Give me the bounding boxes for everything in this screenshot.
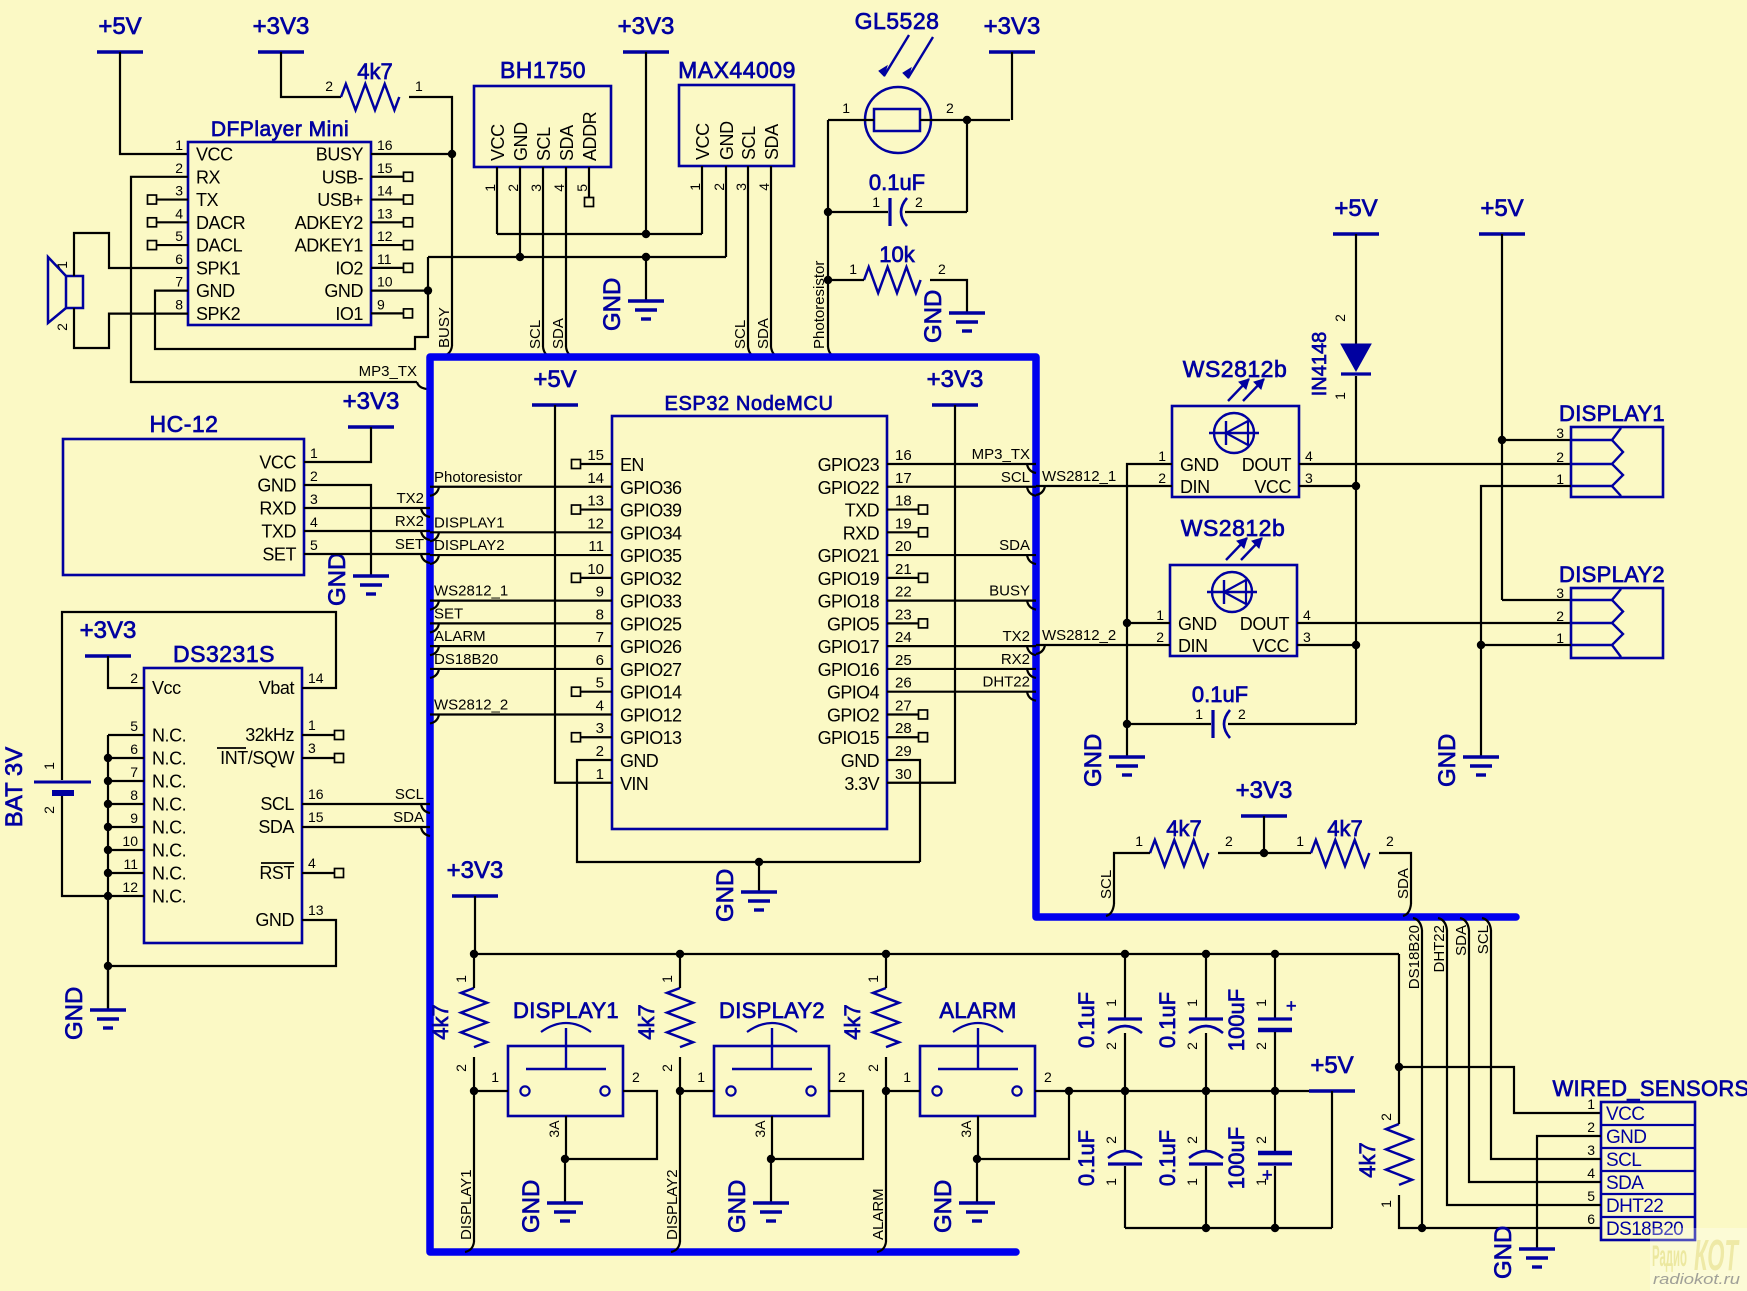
svg-text:Vbat: Vbat xyxy=(259,678,295,698)
svg-text:+3V3: +3V3 xyxy=(1236,777,1293,804)
svg-text:IO2: IO2 xyxy=(335,258,363,278)
svg-text:3.3V: 3.3V xyxy=(844,774,879,794)
svg-text:12: 12 xyxy=(587,515,604,532)
wire rail to sensors corner xyxy=(1398,954,1400,1067)
svg-text:SDA: SDA xyxy=(1395,868,1412,899)
svg-text:DISPLAY1: DISPLAY1 xyxy=(434,514,505,531)
wire +5V to DISPLAY2 pin3 xyxy=(1502,599,1571,601)
svg-text:WS2812_2: WS2812_2 xyxy=(434,696,508,713)
wire cap WS2812 left xyxy=(1127,723,1211,725)
svg-text:1: 1 xyxy=(1158,448,1166,464)
svg-text:2: 2 xyxy=(130,670,138,686)
svg-text:BUSY: BUSY xyxy=(316,145,364,165)
svg-text:GND: GND xyxy=(255,910,294,930)
capacitor 100uF (bank r1c3) xyxy=(1224,954,1297,1091)
capacitor 0.1uF (bank r2c2) xyxy=(1155,1091,1223,1228)
svg-text:VCC: VCC xyxy=(693,123,713,160)
wire speaker pin1 to SPK1 xyxy=(74,233,188,276)
pin stub GPIO39 (nc) xyxy=(572,505,613,514)
power +3V3 (ESP32 3.3V) xyxy=(927,366,984,405)
svg-text:1: 1 xyxy=(1195,706,1203,722)
svg-text:3: 3 xyxy=(308,740,316,756)
IC U1 DFPlayer Mini xyxy=(175,118,393,325)
LED module D2 WS2812b xyxy=(1156,515,1311,656)
svg-text:14: 14 xyxy=(377,183,393,199)
pin stub ADDR (nc) xyxy=(585,167,594,207)
svg-text:2: 2 xyxy=(1386,833,1394,849)
svg-text:GPIO17: GPIO17 xyxy=(818,637,880,657)
svg-text:4: 4 xyxy=(310,514,318,530)
junction mid rail x=1275 xyxy=(1271,1087,1279,1095)
svg-text:DIN: DIN xyxy=(1178,636,1208,656)
svg-text:SPK2: SPK2 xyxy=(196,304,241,324)
svg-text:20: 20 xyxy=(895,538,912,555)
svg-text:Vcc: Vcc xyxy=(152,678,181,698)
svg-text:1: 1 xyxy=(1135,833,1143,849)
wire +5V to diode xyxy=(1355,234,1357,344)
junction displays GND xyxy=(1477,641,1485,649)
svg-text:GND: GND xyxy=(61,987,88,1040)
svg-text:1: 1 xyxy=(842,100,850,116)
wire cap1 right xyxy=(905,211,967,213)
svg-text:N.C.: N.C. xyxy=(152,772,186,792)
svg-text:GPIO22: GPIO22 xyxy=(818,478,880,498)
svg-text:TXD: TXD xyxy=(845,501,880,521)
wire DISPLAY2 pin1 to GND xyxy=(1481,644,1571,646)
junctions N.C. bus xyxy=(104,754,112,900)
svg-text:3: 3 xyxy=(596,720,604,737)
svg-text:30: 30 xyxy=(895,766,912,783)
svg-text:GND: GND xyxy=(724,1180,751,1233)
wire DISPLAY1 pin2 jog xyxy=(565,1091,657,1159)
svg-text:16: 16 xyxy=(377,137,393,153)
junction rail x=886 xyxy=(882,950,890,958)
svg-text:SCL: SCL xyxy=(1475,925,1492,954)
svg-text:10: 10 xyxy=(122,833,138,849)
svg-text:8: 8 xyxy=(130,787,138,803)
svg-text:8: 8 xyxy=(596,606,604,623)
wire BH1750 GND xyxy=(519,167,521,257)
svg-text:SET: SET xyxy=(395,536,424,553)
junction BH1750 GND xyxy=(516,253,524,261)
pin stub IO1 (nc) xyxy=(371,309,413,318)
junction bottom rail c3 xyxy=(1271,1224,1279,1232)
wire VCC rail (BH1750/MAX44009) xyxy=(497,233,702,235)
svg-text:10: 10 xyxy=(377,274,393,290)
svg-text:DACR: DACR xyxy=(196,213,246,233)
resistor 4k7 (ALARM pull-up) xyxy=(840,975,899,1072)
wire GL5528 pin2 down xyxy=(966,120,968,212)
wire pullup top xyxy=(1398,1067,1400,1124)
wire DISPLAY2 3A pin xyxy=(771,1116,773,1159)
net ALARM (border to GPIO26) xyxy=(430,628,612,655)
svg-text:DHT22: DHT22 xyxy=(1431,925,1448,973)
wire DS3231S GND pin13 xyxy=(108,920,336,966)
svg-text:TX2: TX2 xyxy=(1002,628,1030,645)
svg-text:1: 1 xyxy=(1103,1178,1119,1186)
wire DISPLAY2 pin1 xyxy=(680,1090,714,1092)
power +3V3 (DS3231S) xyxy=(80,617,137,656)
svg-text:3: 3 xyxy=(175,183,183,199)
wire ESP32 GND drop xyxy=(758,862,760,892)
svg-text:ALARM: ALARM xyxy=(434,628,486,645)
svg-text:GPIO5: GPIO5 xyxy=(827,614,880,634)
net SET (HC-12 SET to border) xyxy=(304,536,430,563)
junction GL5528 pin2 xyxy=(963,116,971,124)
pin stub GPIO2 (nc) xyxy=(887,710,928,719)
connector J3 WIRED_SENSORS xyxy=(1552,1076,1747,1240)
svg-text:26: 26 xyxy=(895,675,912,692)
svg-text:17: 17 xyxy=(895,470,912,487)
svg-text:27: 27 xyxy=(895,697,912,714)
svg-text:2: 2 xyxy=(1253,1042,1269,1050)
ground (ALARM) xyxy=(930,1180,995,1233)
svg-text:GND: GND xyxy=(1490,1226,1517,1279)
speaker LS1 xyxy=(48,257,83,331)
photoresistor GL5528 xyxy=(842,8,954,153)
svg-text:2: 2 xyxy=(938,261,946,277)
svg-text:WS2812b: WS2812b xyxy=(1181,515,1286,541)
pin stub DACL (nc) xyxy=(148,241,189,250)
net RX2 (GPIO16 to border) xyxy=(887,651,1036,678)
svg-text:GPIO35: GPIO35 xyxy=(620,546,682,566)
svg-text:N.C.: N.C. xyxy=(152,841,186,861)
battery BAT 3V xyxy=(1,747,91,827)
svg-text:GND: GND xyxy=(930,1180,957,1233)
wire DISPLAY2 pin2 jog xyxy=(771,1091,863,1159)
svg-text:0.1uF: 0.1uF xyxy=(1074,1130,1099,1186)
svg-text:WS2812b: WS2812b xyxy=(1183,356,1288,382)
pin stub USB+ (nc) xyxy=(371,195,413,204)
svg-text:GND: GND xyxy=(511,122,531,161)
net SDA (BH1750 to border) xyxy=(550,167,574,357)
wire displays GND drop xyxy=(1480,645,1482,757)
net SCL (DS3231S to border) xyxy=(302,786,430,813)
junction DFPlayer GND pin10 xyxy=(424,286,432,294)
svg-text:Photoresistor: Photoresistor xyxy=(434,469,522,486)
wire resistor ALARM bottom xyxy=(885,1057,887,1091)
svg-text:2: 2 xyxy=(310,468,318,484)
svg-text:Photoresistor: Photoresistor xyxy=(811,261,828,349)
svg-text:SDA: SDA xyxy=(999,537,1030,554)
wire ALARM 3A pin xyxy=(977,1116,979,1159)
svg-text:2: 2 xyxy=(1156,629,1164,645)
button S3 ALARM xyxy=(903,998,1052,1138)
pin stub RXD (nc) xyxy=(887,528,928,537)
pin stub GPIO5 (nc) xyxy=(887,619,928,628)
svg-text:1: 1 xyxy=(872,194,880,210)
button S2 DISPLAY2 xyxy=(697,998,846,1138)
ground (displays) xyxy=(1434,734,1499,787)
svg-text:RX2: RX2 xyxy=(1001,651,1030,668)
wire resistor DISPLAY1 bottom xyxy=(473,1057,475,1091)
svg-text:GPIO26: GPIO26 xyxy=(620,637,682,657)
svg-text:GND: GND xyxy=(1180,455,1219,475)
svg-text:2: 2 xyxy=(505,184,521,192)
svg-text:11: 11 xyxy=(123,856,138,872)
junction sensor VCC node xyxy=(1395,1063,1403,1071)
svg-text:0.1uF: 0.1uF xyxy=(1192,682,1248,707)
svg-text:2: 2 xyxy=(1103,1042,1119,1050)
svg-text:GND: GND xyxy=(324,281,363,301)
svg-text:1: 1 xyxy=(175,137,183,153)
svg-text:2: 2 xyxy=(659,1064,675,1072)
svg-text:10k: 10k xyxy=(879,242,915,267)
wire ESP32 GND pin2 xyxy=(577,760,920,862)
wire battery pin2 xyxy=(62,796,108,896)
svg-text:+3V3: +3V3 xyxy=(927,366,984,393)
svg-text:+3V3: +3V3 xyxy=(80,617,137,644)
resistor 4k7 (BUSY pull-up) xyxy=(325,59,423,110)
svg-text:1: 1 xyxy=(415,78,423,94)
svg-text:+: + xyxy=(1262,1165,1273,1185)
wire +3V3 to 3.3V pin xyxy=(887,405,955,783)
svg-text:+5V: +5V xyxy=(1334,195,1377,222)
svg-text:32kHz: 32kHz xyxy=(245,725,294,745)
svg-text:GPIO39: GPIO39 xyxy=(620,501,682,521)
junction ALARM node xyxy=(882,1087,890,1095)
svg-text:VCC: VCC xyxy=(1252,636,1289,656)
svg-text:16: 16 xyxy=(308,786,324,802)
junction VCC rail +3V3 xyxy=(642,230,650,238)
svg-text:3: 3 xyxy=(1305,470,1313,486)
svg-text:12: 12 xyxy=(122,879,138,895)
svg-text:15: 15 xyxy=(308,809,324,825)
svg-text:2: 2 xyxy=(1158,470,1166,486)
wire HC-12 GND xyxy=(304,485,371,576)
svg-text:2: 2 xyxy=(838,1069,846,1085)
svg-text:2: 2 xyxy=(1556,449,1564,465)
net SDA (GPIO21 to border) xyxy=(887,537,1036,564)
net DISPLAY2 (border to GPIO35) xyxy=(430,537,612,564)
svg-text:13: 13 xyxy=(587,493,604,510)
svg-text:12: 12 xyxy=(377,228,393,244)
wire DISPLAY1 3A to ground xyxy=(564,1159,566,1203)
junction mid rail x=1125 xyxy=(1121,1087,1129,1095)
svg-text:GPIO16: GPIO16 xyxy=(818,660,880,680)
svg-text:9: 9 xyxy=(130,810,138,826)
svg-text:GND: GND xyxy=(257,476,296,496)
net DS18B20 (border to GPIO27) xyxy=(430,651,612,678)
junction DISPLAY2 node xyxy=(676,1087,684,1095)
net TX2 (HC-12 RXD to border) xyxy=(304,490,430,517)
svg-text:2: 2 xyxy=(54,323,70,331)
junction DISPLAY1 +5V xyxy=(1498,436,1506,444)
net DHT22 (connector riser) xyxy=(1431,918,1601,1205)
svg-text:1: 1 xyxy=(659,975,675,983)
svg-text:4k7: 4k7 xyxy=(1327,816,1362,841)
svg-text:4k7: 4k7 xyxy=(840,1004,865,1039)
junction pull-up mid xyxy=(1260,849,1268,857)
svg-text:13: 13 xyxy=(308,902,324,918)
svg-text:4: 4 xyxy=(1303,607,1311,623)
svg-text:3: 3 xyxy=(310,491,318,507)
svg-text:GPIO27: GPIO27 xyxy=(620,660,682,680)
junction GND/battery bus xyxy=(104,962,112,970)
svg-text:SCL: SCL xyxy=(1098,870,1115,899)
svg-text:5: 5 xyxy=(596,675,604,692)
junction WS2812-2 VCC xyxy=(1352,641,1360,649)
svg-text:1: 1 xyxy=(1296,833,1304,849)
module boundary (thick blue) xyxy=(430,357,1516,1252)
pin stub ADKEY2 (nc) xyxy=(371,218,413,227)
wire MAX44009 GND xyxy=(725,166,727,257)
capacitor 100uF (bank r2c3) xyxy=(1224,1091,1292,1228)
svg-text:2: 2 xyxy=(175,160,183,176)
svg-text:1: 1 xyxy=(1587,1096,1595,1112)
svg-text:9: 9 xyxy=(377,296,385,312)
pin stub TX (nc) xyxy=(148,195,189,204)
net SCL (connector riser) xyxy=(1475,918,1601,1159)
svg-text:1: 1 xyxy=(697,1069,705,1085)
watermark radiokot xyxy=(1650,1228,1747,1291)
svg-text:1: 1 xyxy=(865,975,881,983)
svg-text:5: 5 xyxy=(175,228,183,244)
junction DISPLAY1 3A xyxy=(561,1155,569,1163)
wire +3V3 to R 4k7 xyxy=(281,52,341,97)
net WS2812_1 (border to GPIO33) xyxy=(430,583,612,610)
pin stub GPIO14 (nc) xyxy=(572,687,613,696)
svg-text:GND: GND xyxy=(920,290,947,343)
svg-text:N.C.: N.C. xyxy=(152,726,186,746)
resistor 4k7 (DS18B20 pull-up) xyxy=(1355,1113,1412,1208)
wire DS3231S Vcc xyxy=(108,656,144,688)
svg-text:3A: 3A xyxy=(752,1120,768,1138)
ground (10k) xyxy=(920,290,985,343)
svg-text:N.C.: N.C. xyxy=(152,887,186,907)
junction rail x=474 xyxy=(470,950,478,958)
svg-text:ADDR: ADDR xyxy=(580,111,600,161)
svg-text:29: 29 xyxy=(895,743,912,760)
svg-text:GND: GND xyxy=(1178,614,1217,634)
wire R 4k7 to BUSY node xyxy=(409,97,452,154)
power +3V3 (GL5528) xyxy=(984,13,1041,52)
svg-text:SDA: SDA xyxy=(550,318,567,349)
svg-text:DISPLAY1: DISPLAY1 xyxy=(458,1169,475,1240)
svg-text:radiokot.ru: radiokot.ru xyxy=(1653,1271,1741,1288)
svg-text:GPIO12: GPIO12 xyxy=(620,705,682,725)
wire +3V3 buttons stem xyxy=(474,896,476,954)
junction GND rail mid xyxy=(642,253,650,261)
svg-text:2: 2 xyxy=(1556,608,1564,624)
svg-text:GND: GND xyxy=(841,751,880,771)
power +5V (displays) xyxy=(1479,195,1525,234)
net RX2 (HC-12 TXD to border) xyxy=(304,513,430,540)
svg-text:3: 3 xyxy=(733,183,749,191)
svg-text:22: 22 xyxy=(895,584,912,601)
svg-text:MAX44009: MAX44009 xyxy=(678,57,796,83)
junction top rail x=1275 xyxy=(1271,950,1279,958)
net TX2 (GPIO17 to border) xyxy=(887,628,1036,655)
net ALARM (to border) xyxy=(870,1091,887,1252)
power +5V (LED supply) xyxy=(1333,195,1379,234)
net DISPLAY2 (to border) xyxy=(664,1091,681,1252)
wire ALARM pin1 xyxy=(886,1090,920,1092)
svg-text:7: 7 xyxy=(596,629,604,646)
svg-text:DOUT: DOUT xyxy=(1242,455,1292,475)
wire GL5528 pin1 xyxy=(828,119,874,121)
svg-text:2: 2 xyxy=(1238,706,1246,722)
svg-text:1: 1 xyxy=(596,766,604,783)
wire +5V to DISPLAY1 pin3 xyxy=(1502,439,1571,441)
svg-text:EN: EN xyxy=(620,455,644,475)
capacitor 0.1uF (bank r2c1) xyxy=(1074,1091,1142,1228)
power +3V3 (buttons) xyxy=(447,857,504,896)
pin stub RST (nc) xyxy=(302,869,344,878)
svg-text:RX: RX xyxy=(196,167,221,187)
svg-text:TXD: TXD xyxy=(261,522,296,542)
svg-text:1: 1 xyxy=(453,975,469,983)
svg-text:GND: GND xyxy=(717,121,737,160)
resistor 4k7 (DISPLAY2 pull-up) xyxy=(634,975,693,1072)
svg-text:SCL: SCL xyxy=(260,794,294,814)
svg-text:4: 4 xyxy=(551,184,567,192)
diode D3 IN4148 xyxy=(1309,314,1371,400)
svg-text:GPIO4: GPIO4 xyxy=(827,683,880,703)
power +3V3 (4k7 pullup) xyxy=(253,13,310,52)
svg-text:N.C.: N.C. xyxy=(152,818,186,838)
net DHT22 (GPIO4 to border) xyxy=(887,674,1036,701)
svg-text:1: 1 xyxy=(1103,999,1119,1007)
svg-text:SCL: SCL xyxy=(527,320,544,349)
svg-text:3: 3 xyxy=(1556,425,1564,441)
svg-text:GND: GND xyxy=(599,278,626,331)
junction rail x=680 xyxy=(676,950,684,958)
svg-text:13: 13 xyxy=(377,205,393,221)
svg-text:SPK1: SPK1 xyxy=(196,258,241,278)
junction BUSY node xyxy=(448,150,456,158)
wire ALARM pin2 jog xyxy=(1035,1090,1069,1092)
svg-text:GND: GND xyxy=(620,751,659,771)
pin stub TXD (nc) xyxy=(887,505,928,514)
svg-text:RX2: RX2 xyxy=(395,513,424,530)
svg-text:GPIO23: GPIO23 xyxy=(818,455,880,475)
svg-text:RXD: RXD xyxy=(843,523,880,543)
wire speaker pin2 to SPK2 xyxy=(74,308,188,348)
ground (WS2812) xyxy=(1080,734,1145,787)
svg-text:2: 2 xyxy=(1103,1136,1119,1144)
wire HC-12 VCC xyxy=(304,427,371,462)
svg-text:2: 2 xyxy=(1184,1042,1200,1050)
svg-text:24: 24 xyxy=(895,629,912,646)
power +5V (DFPlayer) xyxy=(97,13,143,52)
svg-text:GPIO25: GPIO25 xyxy=(620,614,682,634)
IC U5 HC-12 xyxy=(63,411,318,575)
svg-text:1: 1 xyxy=(1556,471,1564,487)
wire VCC2 to +5V rail xyxy=(1297,644,1356,646)
wire resistor DISPLAY2 bottom xyxy=(679,1057,681,1091)
svg-text:6: 6 xyxy=(1587,1211,1595,1227)
svg-text:BAT 3V: BAT 3V xyxy=(1,747,28,827)
svg-text:RXD: RXD xyxy=(259,499,296,519)
svg-text:MP3_TX: MP3_TX xyxy=(972,446,1030,463)
svg-text:1: 1 xyxy=(903,1069,911,1085)
svg-text:2: 2 xyxy=(453,1064,469,1072)
IC U4 ESP32 NodeMCU xyxy=(587,393,911,829)
junction mid rail x=1206 xyxy=(1202,1087,1210,1095)
svg-text:SET: SET xyxy=(434,605,463,622)
junction photoresistor 10k xyxy=(824,276,832,284)
svg-text:11: 11 xyxy=(588,538,604,555)
svg-text:3: 3 xyxy=(1587,1142,1595,1158)
net WS2812_2 (border to GPIO12) xyxy=(430,696,612,723)
svg-text:VIN: VIN xyxy=(620,774,648,794)
svg-text:+3V3: +3V3 xyxy=(447,857,504,884)
svg-text:DFPlayer Mini: DFPlayer Mini xyxy=(211,118,349,141)
svg-text:1: 1 xyxy=(1156,607,1164,623)
svg-text:+5V: +5V xyxy=(1480,195,1523,222)
wire cap WS2812 right xyxy=(1228,723,1356,725)
